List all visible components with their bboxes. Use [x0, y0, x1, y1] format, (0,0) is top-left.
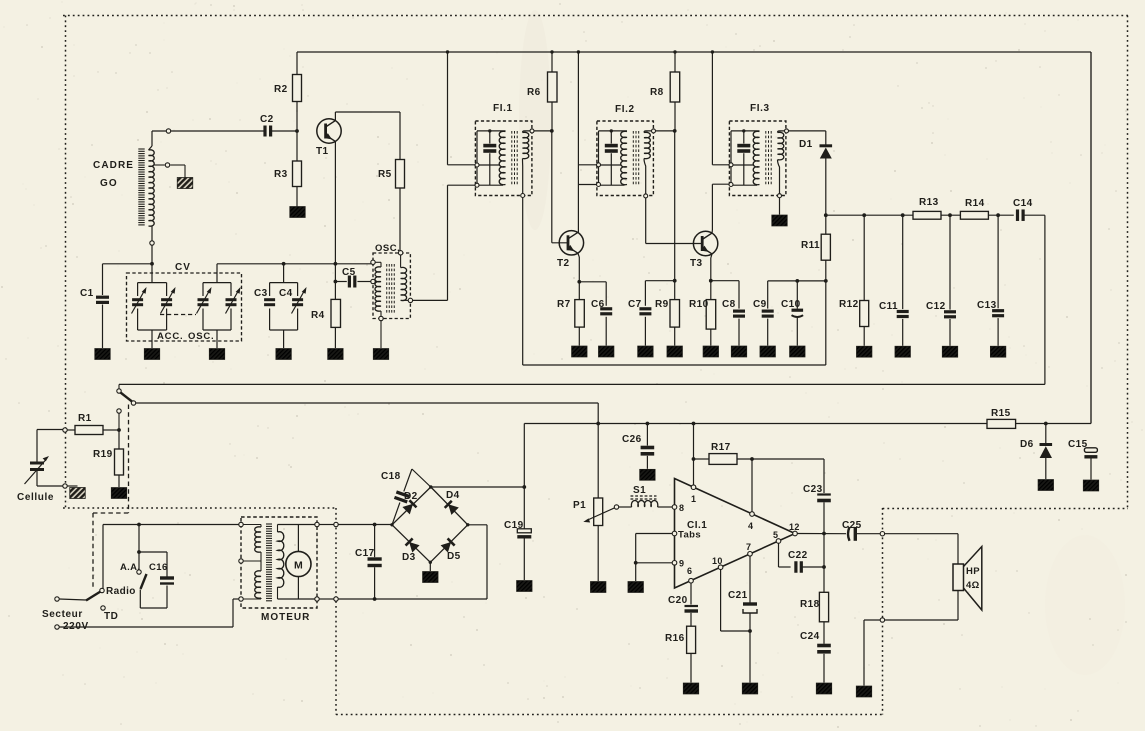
MOTEUR primary winding upper	[255, 527, 261, 552]
node antenna tap terminal	[165, 163, 169, 167]
switch arm detector select	[121, 393, 133, 402]
variable capacitor CV-OSC left plates	[198, 298, 209, 301]
wire speaker return	[957, 591, 959, 621]
wire pin7 to C21	[749, 556, 751, 602]
wire T1 emitter line	[334, 141, 336, 299]
resistor R19	[118, 430, 120, 449]
svg-text:D5: D5	[447, 551, 461, 562]
svg-text:D4: D4	[446, 490, 460, 501]
svg-text:R3: R3	[274, 169, 288, 180]
svg-text:OSC.: OSC.	[188, 331, 214, 342]
node R8 FI.2 junction	[673, 129, 677, 133]
wire to A.A contact	[138, 525, 140, 570]
svg-text:C5: C5	[342, 267, 356, 278]
svg-text:5: 5	[773, 530, 778, 540]
wire C16 bottom row	[140, 607, 167, 609]
wire S1 to pin8	[658, 506, 672, 508]
pin 12	[793, 531, 798, 536]
ground under C19	[517, 581, 533, 592]
svg-text:R13: R13	[919, 197, 939, 208]
wire C1 branch	[103, 263, 153, 265]
svg-text:C14: C14	[1013, 198, 1033, 209]
svg-text:R2: R2	[274, 84, 288, 95]
resistor R4	[331, 299, 341, 327]
node OSC terminal top-left	[371, 260, 375, 264]
capacitor C18 plates	[394, 492, 409, 502]
wire pin5 to C22	[778, 543, 780, 567]
ground under R7	[572, 346, 588, 357]
wire MOTEUR primary centre tap	[260, 552, 262, 561]
IF transformer FI.1 primary and core	[476, 131, 478, 185]
wire C8 branch	[711, 280, 739, 282]
ground under FI.3 secondary	[772, 215, 788, 226]
svg-text:10: 10	[712, 556, 723, 566]
node FI.1 terminal tap	[475, 163, 479, 167]
node FI.2 secondary top terminal	[652, 129, 656, 133]
node D1 R11 R13 junction	[824, 213, 828, 217]
wire Cellule bottom	[36, 471, 38, 486]
svg-text:C4: C4	[279, 288, 293, 299]
ground under C8	[731, 346, 747, 357]
node switch pivot	[131, 401, 135, 405]
wire T2 emitter to R7	[578, 253, 580, 257]
capacitor C13	[996, 213, 1000, 217]
node FI.3 terminal bottom	[729, 183, 733, 187]
svg-text:C21: C21	[728, 590, 748, 601]
capacitor C21	[743, 602, 757, 605]
svg-text:C13: C13	[977, 300, 997, 311]
node FI.3 secondary top terminal	[785, 129, 789, 133]
op-amp CI.1 triangle	[675, 479, 796, 589]
capacitor C5	[335, 281, 346, 283]
ground under C15	[1083, 480, 1099, 491]
dotted enclosure border (receiver block) top edge	[63, 15, 1128, 17]
ground under C26	[640, 469, 656, 480]
svg-text:Radio: Radio	[106, 586, 136, 597]
wire Radio contact to top rail	[102, 525, 104, 589]
ground Cellule	[70, 488, 86, 499]
node C17 bottom junction	[373, 597, 377, 601]
svg-text:C16: C16	[149, 562, 168, 573]
wire FI.1 bottom return to oscillator	[448, 184, 475, 186]
capacitor C18 arm	[392, 503, 400, 525]
svg-text:C19: C19	[504, 520, 524, 531]
ground under C12	[942, 346, 958, 357]
svg-text:GO: GO	[100, 178, 118, 189]
node emitter-oscillator junction	[334, 262, 338, 266]
node C11 junction	[862, 213, 866, 217]
ground under C9	[760, 346, 776, 357]
capacitor C11	[901, 213, 905, 217]
node OSC terminal tap	[371, 279, 375, 283]
motor M	[286, 551, 311, 576]
wire DC plus riser	[523, 424, 525, 488]
OSC secondary winding	[400, 253, 402, 268]
pin 4	[750, 512, 755, 517]
wire antenna top to C2	[149, 146, 153, 150]
node P1 wiper terminal	[614, 505, 618, 509]
node R17 junction	[692, 457, 696, 461]
ground under C21	[742, 683, 758, 694]
ground under C3C4	[276, 349, 292, 360]
node FI.2 terminal tap	[597, 163, 601, 167]
wire C23 R18 vertical	[823, 531, 825, 592]
wire T3 base	[645, 198, 647, 243]
svg-text:T3: T3	[690, 258, 703, 269]
dotted enclosure border bottom edge left segment	[63, 507, 336, 509]
wire C7 branch	[645, 280, 674, 282]
capacitor C17	[374, 525, 376, 558]
variable capacitor CV-ACC left plates	[132, 298, 143, 301]
wire FI.1 secondary top to R6 node	[533, 130, 552, 132]
wire output pin12	[797, 533, 846, 535]
wire wiper to S1	[619, 506, 632, 508]
svg-text:4: 4	[748, 521, 753, 531]
wire MOTEUR primary bottom	[260, 598, 262, 599]
svg-text:C11: C11	[879, 301, 898, 312]
svg-text:ACC.: ACC.	[157, 331, 183, 342]
resistor R15	[987, 419, 1016, 428]
node R6 FI.1 junction	[550, 129, 554, 133]
svg-text:FI.2: FI.2	[615, 104, 635, 115]
node contact A.A	[137, 570, 141, 574]
capacitor C3 C4 frame	[270, 282, 298, 284]
svg-text:CADRE: CADRE	[93, 160, 134, 171]
tuning gang CV dashed box	[127, 273, 242, 341]
diode D6	[1045, 424, 1047, 444]
transformer MOTEUR dashed box	[241, 517, 317, 608]
dotted enclosure border (amplifier block) left edge	[335, 508, 337, 715]
node C3C4 junction	[282, 262, 286, 266]
wire AGC return rail	[523, 364, 826, 366]
wire B+ drop to FI.1 tap	[447, 52, 449, 165]
ground under bridge	[423, 572, 439, 583]
svg-text:TD: TD	[104, 611, 118, 622]
resistor R10	[706, 300, 716, 330]
capacitor C14	[1016, 209, 1019, 221]
wire C14 down to switch line	[1044, 215, 1046, 384]
IF transformer FI.2 dashed box	[597, 121, 654, 196]
capacitor C16	[160, 576, 174, 579]
node C26 junction	[646, 422, 650, 426]
capacitor C26	[646, 424, 648, 446]
svg-text:C24: C24	[800, 631, 820, 642]
node contact lower	[117, 409, 121, 413]
arrow CV-ACC left	[132, 291, 145, 314]
node OSC terminal primary bottom	[379, 316, 383, 320]
capacitor C12	[948, 213, 952, 217]
wire pin1 drop	[693, 424, 695, 486]
ground under C24	[816, 683, 832, 694]
svg-text:C2: C2	[260, 114, 274, 125]
svg-text:Secteur: Secteur	[42, 609, 83, 620]
svg-text:R1: R1	[78, 413, 92, 424]
wire bridge minus to ground	[429, 562, 431, 571]
svg-text:6: 6	[687, 566, 692, 576]
node OSC terminal secondary top	[398, 251, 402, 255]
variable capacitor CV-OSC right plates	[226, 298, 237, 301]
node MOTEUR terminal top-right	[315, 522, 319, 526]
capacitor C3 plates	[264, 298, 275, 301]
wire V+ top bus	[297, 51, 1091, 53]
wire MOTEUR secondary rails	[242, 524, 244, 526]
svg-text:C20: C20	[668, 595, 688, 606]
arrow P1 wiper	[587, 508, 616, 521]
IF transformer FI.1 dashed box	[475, 121, 532, 196]
ground under R19	[111, 488, 127, 499]
resistor R17	[694, 458, 710, 460]
resistor R5	[396, 160, 405, 189]
MOTEUR primary winding lower	[255, 571, 261, 598]
dotted enclosure border bottom edge right segment	[883, 508, 1129, 510]
svg-text:Tabs: Tabs	[678, 530, 701, 541]
node MOTEUR terminal bottom-left	[239, 597, 243, 601]
wire audio supply bus	[524, 423, 1091, 425]
svg-text:8: 8	[679, 503, 684, 513]
wire C6 branch	[579, 281, 606, 283]
OSC primary winding	[373, 261, 381, 263]
node FI.1 secondary bottom terminal	[521, 194, 525, 198]
node MOTEUR terminal bottom-right	[315, 597, 319, 601]
potentiometer P1	[597, 424, 599, 499]
IF transformer FI.3 primary and core	[730, 131, 732, 185]
svg-text:C7: C7	[628, 299, 642, 310]
dotted enclosure border (amplifier block) right edge	[882, 508, 884, 715]
IF transformer FI.1 secondary winding	[523, 132, 529, 158]
node output junction C23	[822, 532, 826, 536]
svg-text:D3: D3	[402, 552, 416, 563]
wire radio signal line A	[119, 383, 1045, 385]
switch arm timer	[141, 574, 147, 589]
ground under Tabs	[628, 582, 644, 593]
node rail terminal on dotted border top	[334, 522, 338, 526]
dashed mechanical link switch	[128, 405, 130, 514]
capacitor C20	[685, 605, 699, 607]
ground under R9	[667, 346, 683, 357]
capacitor C22	[794, 561, 797, 573]
svg-text:HP: HP	[966, 566, 980, 577]
capacitor C10	[795, 279, 799, 283]
ground under R12	[856, 346, 872, 357]
svg-text:R6: R6	[527, 87, 541, 98]
wire CV-OSC stem to oscillator line	[216, 264, 218, 283]
svg-text:OSC.: OSC.	[375, 243, 400, 254]
resistor R3	[296, 131, 298, 161]
loudspeaker HP driver	[953, 564, 964, 591]
wire FI.2 secondary top to R8 node	[655, 130, 675, 132]
svg-text:FI.3: FI.3	[750, 103, 770, 114]
svg-text:R11: R11	[801, 240, 820, 251]
wire T2 base	[551, 131, 553, 243]
IF transformer FI.3 dashed box	[729, 121, 786, 196]
ground under C6	[598, 346, 614, 357]
wire B+ drop to FI.3 tap	[711, 52, 713, 165]
wire Tabs network	[636, 533, 673, 535]
IF transformer FI.2 secondary winding	[644, 132, 650, 158]
ground under R4	[328, 349, 344, 360]
wire detector output line	[826, 214, 913, 216]
wire pin4 drop	[751, 459, 753, 512]
wire antenna bottom to CV	[151, 226, 153, 241]
OSC transformer core	[386, 264, 388, 313]
wire mains bottom to transformer	[59, 626, 233, 628]
svg-text:MOTEUR: MOTEUR	[261, 612, 310, 623]
svg-text:P1: P1	[573, 500, 586, 511]
svg-text:S1: S1	[633, 485, 646, 496]
svg-text:R16: R16	[665, 633, 685, 644]
resistor R2	[296, 52, 298, 75]
svg-text:C17: C17	[355, 548, 375, 559]
svg-text:C23: C23	[803, 484, 823, 495]
node FI.3 terminal tap	[729, 163, 733, 167]
wire oscillator top line	[217, 263, 371, 265]
dotted enclosure border (amplifier block) bottom edge	[336, 714, 883, 716]
svg-text:FI.1: FI.1	[493, 103, 513, 114]
wire OSC primary bottom to ground	[380, 321, 382, 348]
svg-text:D6: D6	[1020, 439, 1034, 450]
node FI.2 secondary bottom terminal	[644, 194, 648, 198]
OSC primary tap wire	[373, 281, 381, 283]
wire T1 collector to R5	[334, 112, 336, 121]
ground under CV-ACC	[144, 349, 160, 360]
ground under R10	[703, 346, 719, 357]
svg-text:R4: R4	[311, 310, 325, 321]
wire antenna coil tap to ground	[154, 164, 165, 166]
node FI.2 terminal bottom	[597, 183, 601, 187]
IF transformer FI.3 secondary winding	[778, 132, 784, 160]
ground under C10	[790, 346, 806, 357]
ground under R3	[290, 207, 306, 218]
node P1 supply junction	[596, 422, 600, 426]
node Secteur terminal bottom	[55, 625, 59, 629]
svg-text:R12: R12	[839, 299, 859, 310]
bridge frame wires	[392, 487, 431, 525]
node FI.1 terminal bottom	[475, 183, 479, 187]
dotted enclosure border left edge	[65, 16, 67, 509]
ground under P1	[590, 582, 606, 593]
svg-text:12: 12	[789, 522, 800, 532]
wire T3 emitter to R10	[711, 254, 712, 258]
pin 8	[672, 505, 677, 510]
wire output to speaker	[885, 533, 958, 535]
resistor R9	[670, 300, 680, 328]
resistor R11	[825, 215, 827, 234]
node FI.1 secondary top terminal	[530, 129, 534, 133]
svg-text:R9: R9	[655, 299, 669, 310]
ground under R16	[683, 683, 699, 694]
svg-text:C15: C15	[1068, 439, 1088, 450]
svg-text:7: 7	[746, 542, 751, 552]
capacitor C1	[96, 296, 109, 299]
capacitor C25	[848, 527, 850, 541]
resistor R8	[674, 52, 676, 72]
node speaker return terminal on dotted border	[880, 618, 884, 622]
wire motor bottom	[297, 577, 299, 599]
variable capacitor CV-ACC frame	[138, 282, 167, 284]
wire CV-ACC to ground	[151, 330, 153, 348]
antenna coil CADRE GO core	[138, 148, 144, 150]
transistor T2	[559, 231, 583, 255]
diode D4	[445, 501, 452, 508]
node output terminal on dotted border	[880, 532, 884, 536]
capacitor C15	[1084, 448, 1097, 453]
ground under C1	[95, 349, 111, 360]
diode D2	[409, 500, 416, 507]
wire pin6 to C20	[690, 583, 692, 605]
inductor S1	[631, 500, 657, 507]
svg-text:D1: D1	[799, 139, 813, 150]
diode D3	[406, 538, 413, 545]
svg-text:T1: T1	[316, 146, 329, 157]
node contact radio-line	[118, 384, 120, 388]
pin 7	[748, 552, 753, 557]
diode D5	[448, 538, 455, 545]
wire FI.3 secondary top to D1	[788, 130, 826, 132]
svg-text:C9: C9	[753, 299, 767, 310]
svg-text:C10: C10	[781, 299, 801, 310]
node A.A junction on rail	[137, 523, 141, 527]
wire switch output line B	[134, 402, 599, 404]
wire bridge plus output	[431, 486, 525, 488]
ground under OSC transformer	[373, 349, 389, 360]
variable capacitor CV-OSC frame	[203, 282, 231, 284]
wire FI.1 secondary bottom to AGC rail	[522, 198, 524, 365]
node contact TD	[101, 606, 105, 610]
svg-text:C8: C8	[722, 299, 736, 310]
photocell Cellule	[30, 462, 44, 465]
capacitor C8	[733, 310, 745, 313]
node C19 junction	[522, 485, 526, 489]
ground speaker return	[856, 686, 872, 697]
ground under C11	[895, 346, 911, 357]
node pin1 line junction	[692, 422, 696, 426]
wire C3C4 stem	[283, 264, 285, 283]
wire MOTEUR primary top	[243, 524, 261, 526]
node contact Radio	[100, 588, 104, 592]
svg-text:4Ω: 4Ω	[966, 580, 980, 591]
wire OSC secondary to FI.1 return	[413, 299, 448, 301]
pin 6	[689, 578, 694, 583]
node rail terminal on dotted border bottom	[334, 597, 338, 601]
node T2 emitter junction	[577, 280, 581, 284]
wire FI.3 secondary bottom to ground	[779, 198, 781, 215]
capacitor C23	[823, 459, 825, 493]
svg-text:R15: R15	[991, 408, 1011, 419]
variable capacitor CV-ACC right plates	[161, 298, 172, 301]
dashed core S1	[631, 498, 657, 500]
svg-text:R7: R7	[557, 299, 571, 310]
capacitor C9	[767, 281, 769, 309]
svg-text:D2: D2	[404, 491, 418, 502]
svg-text:C25: C25	[842, 520, 862, 531]
svg-text:1: 1	[691, 494, 696, 504]
resistor R1	[67, 429, 75, 431]
capacitor C6	[600, 307, 612, 310]
svg-text:CV: CV	[175, 262, 191, 273]
pin 1	[691, 485, 696, 490]
wire pin10 to C21 leg	[720, 570, 722, 632]
node T1 base junction	[295, 129, 299, 133]
antenna coil CADRE GO winding	[149, 150, 155, 226]
node OSC terminal secondary bottom	[408, 298, 412, 302]
wire C3C4 to ground	[283, 330, 285, 348]
ground under CV-OSC	[209, 349, 225, 360]
pin 9	[672, 561, 677, 566]
wire R8 to R9	[674, 131, 676, 300]
wire T3 collector to FI.3	[711, 230, 713, 233]
node terminal on dotted border R1	[63, 428, 67, 432]
node Secteur terminal top	[55, 597, 59, 601]
